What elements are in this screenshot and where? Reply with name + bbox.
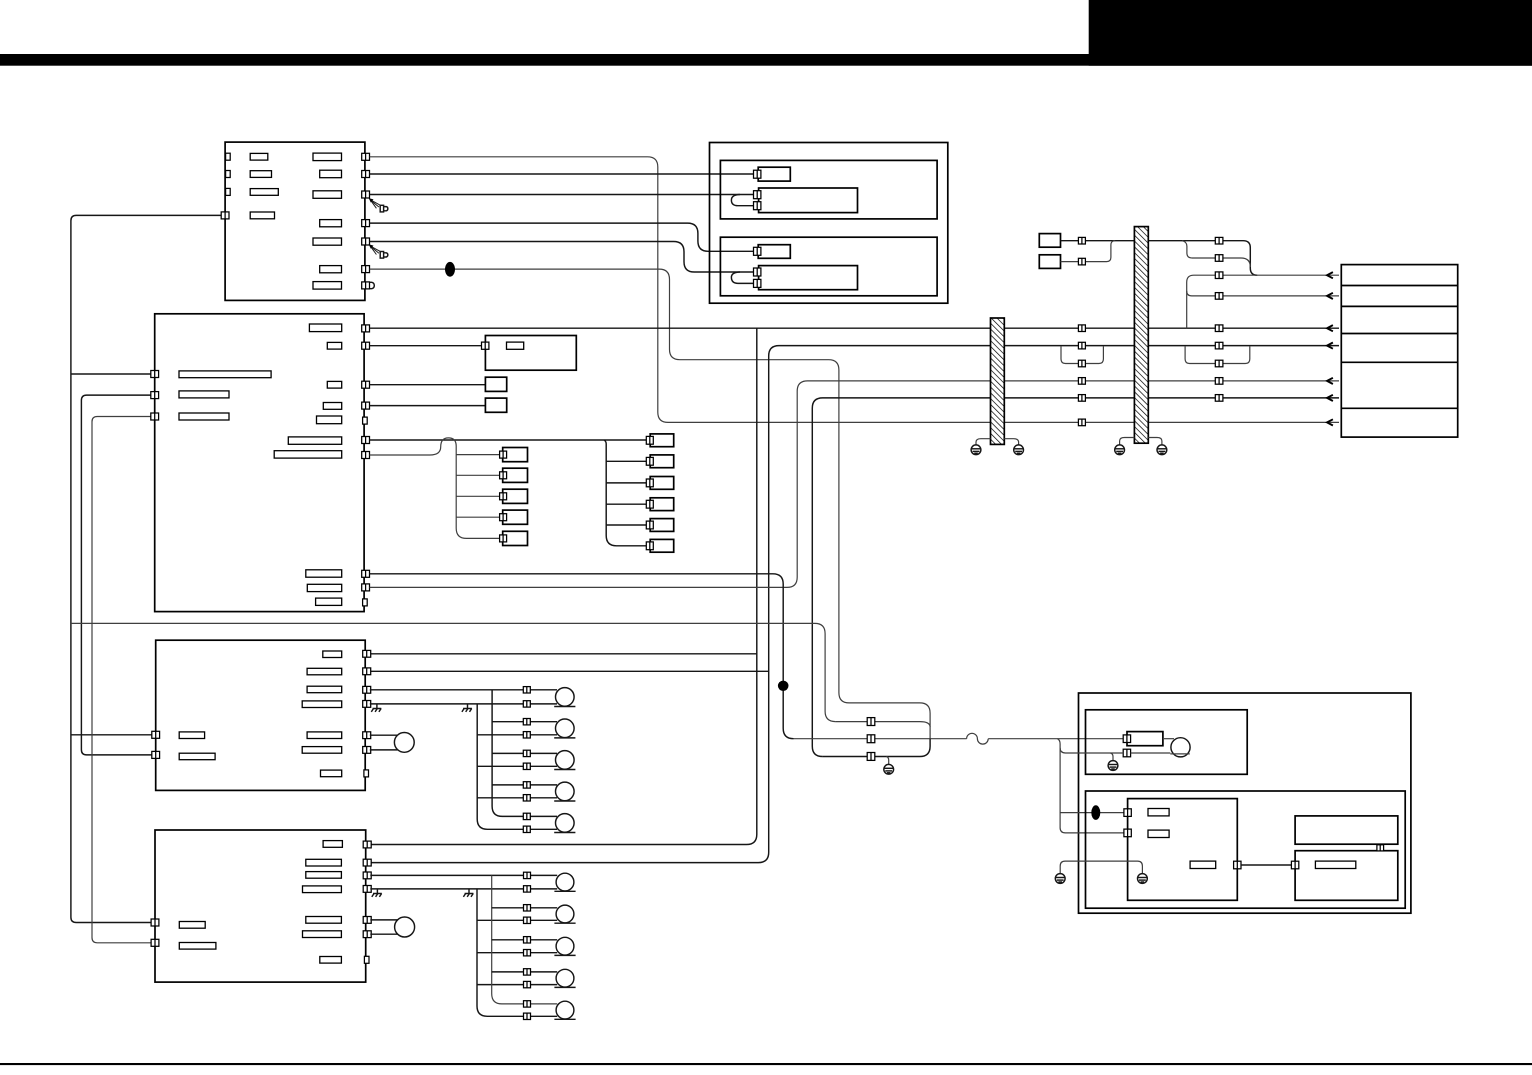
wire B2 (unit B to switch box) <box>370 345 482 347</box>
column1 pin b <box>1078 258 1085 265</box>
lamp return branch c3 <box>477 765 557 767</box>
control unit D box <box>155 830 366 982</box>
row R4 tap from unit C pin2 <box>370 670 769 672</box>
chassis ground near unit D pin4 <box>372 889 382 897</box>
control unit B box <box>155 314 364 612</box>
unit D right pin 2 <box>363 859 371 866</box>
unit B label R1 <box>309 324 341 332</box>
ground lead bar1 right <box>1004 439 1018 445</box>
unit A label R1 <box>313 153 342 161</box>
unit B right pin 2 <box>362 342 370 349</box>
unit D label L2 <box>179 943 216 950</box>
horn return pin <box>1123 749 1130 757</box>
component box B3 <box>485 377 506 391</box>
arrow into destination row 7 <box>1327 419 1333 425</box>
relay 1 contact rect <box>759 188 858 213</box>
connector box 2-6 <box>650 539 674 552</box>
horn coil rect <box>1127 732 1163 746</box>
lamp L9 feed pin <box>524 969 531 975</box>
destination box divider 2 <box>1341 305 1457 307</box>
splice capsule on lamp unit feed <box>1091 805 1100 820</box>
column1 pin d <box>1078 342 1085 349</box>
rear feed wire to tail assembly <box>988 738 1123 740</box>
motor M1 <box>394 733 414 753</box>
inter-box pin <box>1377 845 1384 851</box>
relay 2 contact rect <box>759 266 858 290</box>
connector box 2-5 <box>650 519 674 532</box>
splice dot on wire A6 <box>445 262 455 277</box>
lamp module right pin <box>1234 861 1241 869</box>
junction pin J2 <box>867 718 875 726</box>
unit C motor feed <box>370 734 398 736</box>
ground G5 <box>884 764 894 774</box>
unit B label L3 <box>179 413 229 420</box>
lamp L10 feed pin <box>524 1001 531 1007</box>
bypass loop row R4 at column 1 <box>1061 346 1103 363</box>
connector pin 1-2 <box>500 472 507 479</box>
lamp feed vertical V2c <box>492 690 557 817</box>
page header black bar <box>0 54 1532 66</box>
lamp L6 <box>554 873 575 891</box>
unit C label L1 <box>179 732 204 739</box>
unit D label R3 <box>306 872 342 879</box>
lamp module label 1 <box>1148 809 1169 816</box>
wire break squiggle on rear feed <box>967 733 989 744</box>
lamp feed branch c4 <box>492 784 557 786</box>
column1 pin c <box>1078 325 1085 332</box>
junction pin J3 <box>867 735 875 743</box>
unit C right pin 3 <box>363 686 371 693</box>
wire lamp module to bulb module <box>1241 864 1292 866</box>
harness destination box <box>1341 265 1457 438</box>
row R5 via vertical V797 from unit B pin9 <box>370 381 1339 588</box>
lamp feed branch c3 <box>492 752 557 754</box>
grommet bar 1 <box>991 318 1005 444</box>
control unit C box <box>156 640 366 790</box>
row R6 via vertical V812 from rear lamp feed <box>812 398 1339 757</box>
lamp L2 feed pin <box>523 719 530 725</box>
vertical V757 from row R3 to units C D <box>370 328 757 844</box>
unit C label R7 <box>321 770 342 777</box>
unit B right pin 6 <box>362 452 370 459</box>
lamp return branch c4 <box>477 797 557 799</box>
connector pin 2-3 <box>646 479 653 487</box>
unit A pin 6 <box>362 266 370 273</box>
lamp L5 <box>554 814 575 833</box>
wire to connector 2-3 <box>606 482 647 484</box>
ground stub at junction row J4 <box>886 757 888 765</box>
unit C label R1 <box>323 651 342 658</box>
unit B right half pin b <box>363 599 368 606</box>
unit C label R3 <box>307 686 342 693</box>
unit B label R7 <box>274 451 342 458</box>
column2 pin f <box>1215 342 1223 349</box>
unit A pin 2 <box>362 171 370 178</box>
connector box 2-2 <box>650 455 674 468</box>
lamp feed branch d4 <box>492 971 558 973</box>
horn coil pin <box>1123 735 1130 743</box>
unit B right pin 3 <box>362 381 370 388</box>
chassis ground near unit C pin4 <box>371 704 381 712</box>
unit A inner tab 3 <box>226 188 231 195</box>
lamp L5 feed pin <box>523 813 530 819</box>
lamp feed vertical V2d <box>492 875 558 1004</box>
wire B8 (unit B pin8 to rear junction) <box>370 574 794 739</box>
unit B label R5 <box>317 416 342 424</box>
wire A1 (unit A pin1 to connector row 7) <box>370 157 1339 423</box>
unit D label R6 <box>303 931 342 938</box>
lamp module pin 2 <box>1124 829 1131 837</box>
lamp L3 feed pin <box>523 750 530 756</box>
junction row J2 to merge <box>835 722 930 727</box>
unit C right pin 4 <box>363 701 371 708</box>
unit C label R5 <box>307 732 342 739</box>
wire A6 (unit A pin6 long run to rear harness) <box>370 269 931 739</box>
wire B3 <box>370 384 486 386</box>
horn sounder circle <box>1171 738 1190 757</box>
horn base line <box>1170 753 1190 755</box>
connector box 1-3 <box>503 489 528 503</box>
unit A label L3 <box>250 189 278 196</box>
lamp L5 return pin <box>523 826 530 832</box>
destination box divider 1 <box>1341 285 1457 287</box>
unit B label R2 <box>327 342 341 349</box>
arrow into destination row 5 <box>1327 378 1333 384</box>
unit D motor feed <box>370 919 398 921</box>
lamp module pin 1 <box>1124 809 1131 817</box>
chassis ground at lamp return branch d <box>463 889 473 897</box>
unit C label R6 <box>302 747 342 754</box>
unit A pin 7 stub loop <box>370 282 374 288</box>
switch box pin <box>482 342 489 349</box>
ground lead bar2 right <box>1148 438 1162 446</box>
unit B label R9 <box>307 584 341 591</box>
unit C label R2 <box>307 668 342 675</box>
unit C lamp return row <box>370 703 557 705</box>
lamp L1 <box>554 688 575 707</box>
column2 pin a <box>1215 237 1223 244</box>
ground lead bar1 left <box>976 439 991 445</box>
column2 pin g <box>1215 360 1223 367</box>
column2 pin d <box>1215 293 1223 300</box>
unit B right pin 7 <box>362 570 370 577</box>
chassis ground at lamp return branch <box>462 704 472 712</box>
unit A left pin <box>221 212 229 219</box>
unit D lamp feed top row <box>370 874 557 876</box>
relay 1 contact pin b <box>754 202 761 210</box>
unit D right pin 4 <box>363 886 371 893</box>
row R1 with drop to R3 <box>1187 275 1339 328</box>
ground G8 <box>1138 874 1148 884</box>
unit C motor return <box>370 749 398 751</box>
relay 2 contact pin b <box>754 279 761 287</box>
wire B6 (unit B pin6 feed) <box>370 439 647 441</box>
connector box 1-1 <box>503 448 528 462</box>
lamp L2 return pin <box>523 732 530 738</box>
control unit A box <box>225 142 365 300</box>
lamp L7 <box>554 905 575 923</box>
relay 2 contact pin a <box>754 268 761 276</box>
lamp L9 <box>554 969 575 987</box>
relay 2 coil pin <box>754 247 761 255</box>
wire B7 with hop over B6 <box>370 438 501 539</box>
relay 1 coil pin <box>754 170 761 178</box>
wire to connector 2-5 <box>606 524 647 526</box>
unit B right pin 8 <box>362 584 370 591</box>
unit C left pin 1 <box>152 731 160 738</box>
unit A pin3 probe arrow plug <box>369 198 388 212</box>
ground G1 <box>971 445 981 455</box>
wire A5 branch fork <box>731 272 755 283</box>
ground G4 <box>1157 445 1167 455</box>
unit C right pin 1 <box>363 650 371 657</box>
unit A label R3 <box>313 191 342 199</box>
wire rail V3 unit B to unit D <box>92 417 152 943</box>
lamp L1 feed pin <box>523 687 530 693</box>
unit D label R1 <box>323 841 342 848</box>
destination box divider 4 <box>1341 361 1457 363</box>
wire B6 drop to connector group 2 <box>604 440 647 546</box>
bulb module label <box>1315 861 1355 868</box>
connector pin 1-5 <box>500 535 507 542</box>
unit A inner tab 1 <box>226 153 231 160</box>
relay 1 contact pin a <box>754 191 761 199</box>
lamp L3 <box>554 751 575 770</box>
bulb module pin <box>1291 861 1298 869</box>
unit A pin 5 <box>362 238 370 245</box>
switch box with label <box>485 336 576 371</box>
connector pin 2-5 <box>646 521 653 529</box>
unit A label R5 <box>313 238 342 245</box>
destination box divider 3 <box>1341 333 1457 335</box>
lamp feed branch d2 <box>492 907 558 909</box>
wire from rail V1 to rear junction row <box>71 623 836 721</box>
vertical V757 tap from unit C pin1 <box>370 653 757 655</box>
connector box 1-5 <box>503 531 528 545</box>
relay unit 1 box <box>720 160 937 219</box>
unit D right half pin <box>364 956 369 963</box>
lamp module label 3 <box>1190 861 1216 868</box>
wire B4 <box>370 405 486 407</box>
horn feed stub <box>1163 738 1174 740</box>
column1 pin g <box>1078 395 1085 402</box>
lamp L9 return pin <box>524 981 531 987</box>
bypass loop row R4 at column 2 <box>1185 346 1250 363</box>
wire rail V1 from control unit A to units B C D <box>71 215 221 922</box>
connector box 1-2 <box>503 468 528 482</box>
arrow into destination row 4 <box>1327 343 1333 349</box>
relay 1 coil rect <box>758 167 790 181</box>
unit A label R4 <box>320 220 342 227</box>
wire to connector 2-2 <box>606 460 647 462</box>
ground lead bar2 left <box>1120 438 1135 446</box>
unit C label R4 <box>302 701 342 708</box>
wire to connector 1-1 <box>456 454 500 456</box>
tail assembly outer box <box>1079 693 1411 913</box>
unit A pin 1 <box>362 153 370 160</box>
lamp L7 return pin <box>524 917 531 923</box>
column2 pin e <box>1215 325 1223 332</box>
relay unit 2 box <box>720 237 937 296</box>
unit D left pin 2 <box>151 939 159 946</box>
wire A3 (unit A pin3 to relay box) <box>370 194 756 196</box>
unit A pin 3 <box>362 191 370 198</box>
unit B right pin 4 <box>362 402 370 409</box>
tail lamp unit box <box>1086 791 1406 908</box>
unit C right half pin <box>364 770 369 777</box>
lamp L8 <box>554 937 575 955</box>
unit D right pin 1 <box>363 841 371 848</box>
lamp return vertical V1d <box>477 889 557 1016</box>
ground G3 <box>1115 445 1125 455</box>
wire to connector 1-4 <box>456 516 500 518</box>
wire rail V1 tap at unit B <box>71 373 151 375</box>
ground strap row <box>1060 861 1142 873</box>
ground G2 <box>1014 445 1024 455</box>
unit B label R3 <box>327 381 341 388</box>
row WB <box>1192 258 1250 267</box>
unit B label L2 <box>179 391 229 398</box>
unit A label L2 <box>250 171 271 178</box>
unit D label R4 <box>303 886 342 893</box>
column2 pin c <box>1215 272 1223 279</box>
grommet bar 2 <box>1134 227 1148 444</box>
unit A pin5 probe arrow plug <box>369 244 388 258</box>
column2 pin b <box>1215 255 1223 262</box>
lamp L4 feed pin <box>523 782 530 788</box>
lamp L4 return pin <box>523 795 530 801</box>
unit B left pin 1 <box>151 371 159 378</box>
unit C lamp feed top row <box>370 689 557 691</box>
component box K2 <box>1039 255 1060 269</box>
unit D label R5 <box>306 917 342 924</box>
wire A2 (unit A pin2 to relay box) <box>370 173 756 175</box>
lamp feed branch c2 <box>492 721 557 723</box>
bottom rule <box>0 1063 1532 1065</box>
unit B left pin 2 <box>151 392 159 399</box>
arrow into destination row 3 <box>1327 325 1333 331</box>
unit D left pin 1 <box>151 919 159 926</box>
unit D label R2 <box>306 859 342 866</box>
unit B label R4 <box>323 403 341 410</box>
column1 pin a <box>1078 237 1085 244</box>
column2 pin i <box>1215 395 1223 402</box>
unit C right pin 2 <box>363 668 371 675</box>
unit D right pin 5 <box>363 917 371 924</box>
unit B label R8 <box>306 570 342 577</box>
row R2 branch <box>1187 291 1339 296</box>
lamp return branch d4 <box>477 984 557 986</box>
lamp module box <box>1128 799 1238 901</box>
connector box 1-4 <box>503 510 528 524</box>
lamp L6 feed pin <box>524 872 531 878</box>
unit C left pin 2 <box>152 751 160 758</box>
unit D lamp return row <box>370 888 557 890</box>
lamp return branch c2 <box>477 734 557 736</box>
component box B4 <box>485 398 506 412</box>
wire A4 (unit A pin4 to relay box) <box>370 223 756 251</box>
connector pin 2-2 <box>646 457 653 465</box>
lamp return branch d2 <box>477 919 557 921</box>
unit B right half pin a <box>363 417 368 424</box>
unit A label L1 <box>250 153 268 160</box>
wire to connector 1-3 <box>456 495 500 497</box>
lamp module label 2 <box>1148 830 1169 837</box>
lamp L2 <box>554 719 575 738</box>
unit C label L2 <box>179 753 215 760</box>
arrow into destination row 6 <box>1327 395 1333 401</box>
connector box 2-4 <box>650 498 674 511</box>
relay box outer <box>710 143 948 304</box>
unit C right pin 6 <box>363 747 371 754</box>
motor M2 <box>395 917 415 937</box>
unit B label L1 <box>179 371 271 378</box>
connector pin 2-1 <box>646 436 653 444</box>
column1 pin h <box>1078 419 1085 426</box>
lamp L10 return pin <box>524 1013 531 1019</box>
lamp L3 return pin <box>523 763 530 769</box>
junction row J4 to merge <box>823 739 931 757</box>
connector pin 2-4 <box>646 500 653 508</box>
unit A label L4 <box>250 212 274 219</box>
wire to connector 1-2 <box>456 474 500 476</box>
unit C right pin 5 <box>363 732 371 739</box>
connector box 2-1 <box>650 434 674 447</box>
column1 pin f <box>1078 378 1085 385</box>
branch from rear feed down the tail assembly <box>1057 739 1123 833</box>
relay 2 coil rect <box>758 245 790 259</box>
wire to connector 2-4 <box>606 503 647 505</box>
unit B label R6 <box>288 437 341 444</box>
wire rail V1 tap at unit C <box>71 734 152 736</box>
ground stub on horn return <box>1111 753 1114 760</box>
lamp return vertical V1c <box>477 704 557 829</box>
horn sub-assembly box <box>1086 710 1248 775</box>
wire A5 (unit A pin5 to relay box) <box>370 242 756 273</box>
connector pin 1-4 <box>500 514 507 521</box>
junction pin J4 <box>867 753 875 761</box>
lamp L6 return pin <box>524 886 531 892</box>
arrow into destination row 1 <box>1327 272 1333 278</box>
wire WA from K1 across grommets <box>1061 241 1258 276</box>
unit B left pin 3 <box>151 413 159 420</box>
wire WC from K2 joining WA <box>1061 241 1116 262</box>
unit A pin 7 <box>362 282 370 289</box>
row R3 (unit B pin1 across page) <box>370 327 1339 329</box>
component box K1 <box>1039 234 1060 248</box>
lamp L8 feed pin <box>524 937 531 943</box>
unit A label R7 <box>313 282 342 290</box>
unit A inner tab 2 <box>226 171 231 178</box>
wire A3 branch fork <box>731 195 755 206</box>
connector pin 1-3 <box>500 493 507 500</box>
unit B label R10 <box>316 598 342 605</box>
horn return wire <box>1131 752 1171 754</box>
ground G6 <box>1108 761 1118 771</box>
bulb module box <box>1295 851 1398 901</box>
lamp L7 feed pin <box>524 905 531 911</box>
unit B right pin 1 <box>362 325 370 332</box>
branch row to lamp unit pin1 <box>1060 812 1124 814</box>
row R4 via vertical V769 from units C D <box>370 346 1339 863</box>
destination box divider 5 <box>1341 407 1457 409</box>
column2 pin h <box>1215 378 1223 385</box>
unit D right pin 3 <box>363 872 371 879</box>
unit D label L1 <box>179 922 205 929</box>
unit A pin 4 <box>362 220 370 227</box>
unit D label R7 <box>320 957 342 964</box>
wire rail V2 unit B to unit C <box>81 395 151 755</box>
